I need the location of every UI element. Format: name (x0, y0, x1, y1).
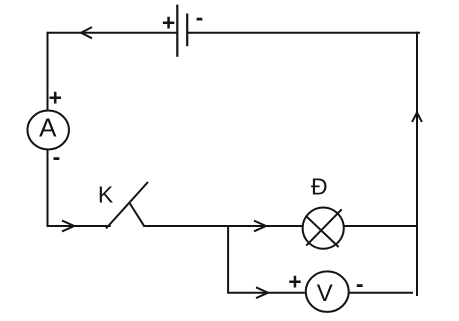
wire top-left horizontal (battery + plate to top-left corner) (48, 32, 178, 34)
battery positive plate (long) (176, 5, 178, 57)
svg-text:+: + (162, 10, 175, 36)
wire bottom-left horizontal (corner to switch left contact) (47, 225, 111, 227)
wire branch vertical down to voltmeter (227, 226, 229, 293)
wire left vertical lower (ammeter bottom to bottom-left corner) (47, 150, 49, 228)
arrow right on lamp wire (254, 221, 266, 232)
wire top-right horizontal (battery - plate to top-right corner) (187, 32, 420, 34)
ammeter A1 circle (27, 111, 68, 150)
svg-text:+: + (288, 269, 301, 295)
battery negative plate (short) (186, 14, 188, 47)
arrow up on right vertical wire (412, 113, 422, 122)
svg-text:-: - (196, 4, 204, 30)
svg-text:K: K (98, 181, 114, 207)
wire left vertical upper (corner to ammeter top) (47, 32, 49, 111)
wire voltmeter right horizontal (349, 292, 413, 294)
wire switch to lamp horizontal (145, 225, 303, 227)
arrow right on bottom-left wire (62, 221, 74, 232)
svg-text:Đ: Đ (311, 174, 328, 200)
arrow left on top wire (81, 27, 92, 38)
lamp cross diagonal SW-NE (overshoots top right) (306, 209, 341, 245)
wire lamp to right vertical horizontal (344, 225, 418, 227)
wire right vertical (battery - down to below voltmeter level) (416, 32, 418, 296)
lamp D circle (303, 208, 344, 249)
svg-text:-: - (53, 144, 61, 170)
svg-text:V: V (317, 280, 333, 307)
voltmeter V1 circle (306, 271, 349, 312)
svg-text:-: - (356, 271, 364, 297)
lamp cross diagonal NW-SE (306, 216, 339, 247)
arrow right on voltmeter wire (256, 287, 268, 298)
wire voltmeter left horizontal (227, 292, 306, 294)
svg-text:+: + (48, 85, 61, 111)
switch K blade (106, 182, 148, 229)
svg-text:A: A (39, 112, 57, 142)
switch K right lead riser (130, 203, 145, 227)
